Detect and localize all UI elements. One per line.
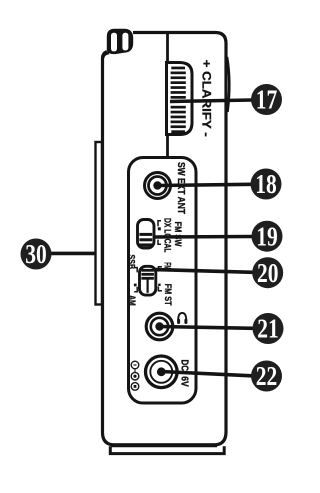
- leader wire 30: [50, 252, 96, 256]
- label SW EXT ANT: [175, 162, 186, 214]
- polarity symbol: [131, 361, 139, 390]
- body outline: [103, 33, 227, 446]
- svg-text:FM SW: FM SW: [172, 222, 183, 247]
- label FM SW: [172, 222, 183, 247]
- svg-text:+ CLARIFY -: + CLARIFY -: [199, 60, 213, 137]
- position bracket FM ST: [158, 284, 162, 291]
- svg-text:17: 17: [256, 85, 278, 115]
- label DC: [179, 359, 190, 371]
- front edge contour: [227, 57, 229, 112]
- svg-text:6V: 6V: [179, 376, 190, 387]
- svg-text:SW EXT ANT: SW EXT ANT: [175, 162, 186, 214]
- svg-text:AM: AM: [126, 295, 137, 306]
- position bracket SSB: [134, 268, 137, 273]
- bottom base lip: [110, 446, 224, 453]
- clarify wheel 17: [167, 63, 193, 135]
- leader wire 17: [170, 100, 252, 102]
- jack J21 phones: [146, 313, 173, 340]
- svg-text:30: 30: [25, 239, 47, 269]
- label 6V: [179, 376, 190, 387]
- leader wire 22: [161, 372, 251, 376]
- callout circle 18: [251, 169, 282, 200]
- svg-text:21: 21: [257, 314, 279, 344]
- svg-text:20: 20: [257, 258, 279, 288]
- jack J18 SW EXT ANT: [145, 173, 171, 199]
- position bracket FM: [158, 267, 162, 272]
- divider line: [166, 33, 169, 157]
- switch S20 band: [140, 266, 156, 295]
- antenna tip: [103, 29, 133, 58]
- svg-text:19: 19: [256, 221, 278, 251]
- svg-text:18: 18: [255, 169, 277, 199]
- label DX LOCAL: [162, 218, 173, 253]
- position bracket AM: [134, 284, 137, 292]
- position bracket DX: [158, 221, 161, 231]
- leader wire 20: [156, 270, 254, 273]
- callout circle 19: [252, 221, 283, 252]
- phones icon: [177, 313, 187, 324]
- label AM: [126, 295, 137, 306]
- svg-text:22: 22: [256, 361, 278, 391]
- callout circle 17: [251, 84, 282, 115]
- svg-text:FM ST: FM ST: [162, 284, 173, 306]
- leader wire 19: [155, 235, 253, 239]
- leader wire 18: [158, 184, 253, 185]
- leader wire 21: [160, 327, 254, 329]
- callout circle 21: [253, 313, 284, 344]
- svg-text:DC: DC: [179, 359, 190, 371]
- jack J22 DC: [146, 356, 178, 388]
- bottom edge emphasis: [111, 443, 217, 447]
- label FM ST: [162, 284, 173, 306]
- side strap 30: [96, 142, 103, 305]
- label FM: [162, 262, 173, 269]
- label SSB: [126, 255, 137, 270]
- callout circle 20: [252, 257, 283, 288]
- callout circle 30: [21, 239, 52, 270]
- position bracket LOCAL: [158, 240, 161, 245]
- callout circle 22: [251, 361, 282, 392]
- side control panel: [129, 158, 197, 404]
- label + CLARIFY -: [199, 60, 213, 137]
- switch S19 DX/LOCAL: [138, 220, 155, 249]
